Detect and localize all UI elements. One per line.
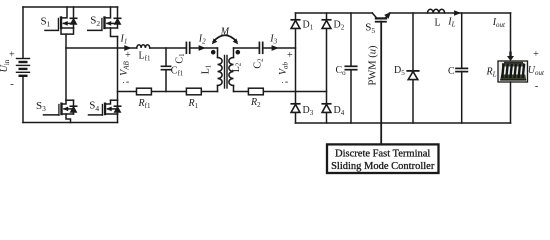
label Cf1	[171, 66, 184, 78]
svg-text:Vab: Vab	[278, 61, 290, 75]
wire: rectifier top rail	[296, 12, 373, 14]
label Uin	[0, 50, 15, 91]
svg-text:C: C	[448, 66, 455, 77]
label S5	[365, 22, 375, 35]
svg-text:Cf1: Cf1	[171, 66, 184, 78]
polarity dot primary	[211, 50, 216, 55]
wire: primary bottom (node B to L1)	[118, 91, 218, 93]
wire: left leg node A	[65, 34, 67, 100]
svg-text:Iout: Iout	[492, 17, 506, 29]
inductor L	[428, 9, 445, 13]
wire: Co branch	[350, 13, 352, 123]
inductor Lf1	[137, 45, 150, 48]
transistor S1	[45, 7, 77, 34]
svg-text:Lf1: Lf1	[139, 51, 151, 63]
svg-text:VAB: VAB	[119, 60, 131, 75]
label Lf1	[139, 51, 151, 63]
label D2	[334, 20, 345, 32]
label controller text	[331, 148, 435, 172]
current arrow Iout	[507, 52, 514, 62]
svg-text:D5: D5	[394, 65, 405, 77]
svg-text:S3: S3	[36, 100, 46, 113]
load RL picture	[498, 61, 528, 82]
svg-text:-: -	[126, 77, 129, 88]
current arrow I2	[199, 45, 206, 51]
label Rf1	[138, 98, 151, 110]
svg-text:D1: D1	[303, 20, 314, 32]
label D3	[303, 105, 314, 117]
transistor S5	[372, 12, 391, 22]
current arrow IL	[454, 10, 461, 15]
capacitor C2	[259, 42, 262, 53]
svg-text:S2: S2	[90, 15, 100, 28]
svg-text:D4: D4	[334, 105, 345, 117]
wire: input bridge bottom rail	[23, 122, 118, 124]
svg-text:C1: C1	[175, 53, 187, 64]
transistor S2	[88, 7, 121, 37]
resistor R2	[248, 88, 263, 95]
svg-text:.: .	[123, 76, 125, 85]
diode D3	[291, 104, 300, 113]
wire: right leg node B	[117, 37, 119, 101]
diode D2	[322, 20, 331, 29]
label Uout	[528, 49, 545, 92]
label L1	[201, 64, 213, 74]
svg-text:L: L	[435, 18, 441, 29]
svg-text:D2: D2	[334, 20, 345, 32]
mutual coupling arrow M	[212, 35, 238, 44]
label S3	[36, 100, 46, 113]
wire: rectifier right leg	[326, 13, 328, 123]
svg-text:Sliding Mode Controller: Sliding Mode Controller	[331, 161, 435, 172]
diode D4	[322, 104, 331, 113]
label D4	[334, 105, 345, 117]
polarity dot secondary	[236, 50, 241, 55]
svg-text:I1: I1	[120, 34, 128, 46]
battery Uin	[17, 59, 30, 76]
svg-text:-: -	[10, 78, 14, 90]
label RL	[486, 67, 497, 79]
capacitor C1	[186, 42, 189, 53]
svg-text:+: +	[9, 50, 15, 61]
wire: input bridge top rail	[23, 6, 118, 8]
svg-text:S1: S1	[41, 15, 51, 28]
label C2	[253, 58, 265, 69]
label D1	[303, 20, 314, 32]
capacitor C	[456, 68, 467, 71]
wire: output right drop	[510, 13, 512, 52]
svg-text:.: .	[282, 76, 284, 85]
wire: Cf1 branch vertical	[165, 48, 167, 92]
diode D5	[407, 71, 418, 80]
svg-text:S5: S5	[365, 22, 375, 35]
wire: rectifier left leg	[295, 13, 297, 123]
svg-text:Rf1: Rf1	[138, 98, 151, 110]
wire A from C1 to transformer	[190, 47, 218, 49]
current arrow I3	[272, 45, 279, 51]
svg-text:RL: RL	[486, 67, 497, 79]
transformer core	[225, 56, 228, 89]
svg-text:Uin: Uin	[0, 59, 11, 72]
wire A horizontal	[66, 47, 137, 49]
wire: load bottom lead	[510, 82, 512, 123]
diode D1	[291, 20, 300, 29]
resistor R1	[186, 88, 201, 95]
label C	[448, 66, 455, 77]
svg-text:Uout: Uout	[528, 65, 545, 77]
label L2	[231, 62, 243, 72]
svg-text:R1: R1	[188, 98, 199, 110]
wire: D5 branch	[412, 13, 414, 123]
label I3	[269, 34, 277, 46]
wire: battery top lead	[22, 7, 24, 58]
label M	[220, 27, 230, 38]
label S2	[90, 15, 100, 28]
controller box	[327, 144, 439, 173]
label Co	[336, 65, 347, 77]
label S4	[89, 100, 99, 113]
svg-text:+: +	[533, 49, 539, 60]
label S1	[41, 15, 51, 28]
transistor S4	[89, 100, 121, 122]
wire: C branch	[461, 13, 463, 123]
svg-text:-: -	[535, 81, 538, 92]
label D5	[394, 65, 405, 77]
label IL	[447, 17, 455, 29]
label Vab	[278, 50, 293, 88]
svg-text:I2: I2	[198, 34, 206, 46]
svg-text:L2: L2	[231, 62, 243, 72]
svg-text:-: -	[285, 77, 288, 88]
wire: secondary top (L2 to rectifier)	[234, 47, 296, 49]
svg-text:S4: S4	[89, 100, 99, 113]
wire: gate line from S5 to controller	[380, 22, 382, 145]
wire: rectifier bottom rail	[296, 122, 511, 124]
svg-text:M: M	[220, 27, 230, 38]
capacitor Cf1	[161, 66, 170, 69]
svg-text:IL: IL	[447, 17, 455, 29]
capacitor Co	[345, 66, 356, 69]
transistor S3	[44, 100, 77, 122]
wire: rectifier top rail right of S5	[390, 12, 511, 14]
label R2	[250, 97, 261, 109]
svg-text:+: +	[287, 50, 293, 61]
svg-text:Discrete Fast Terminal: Discrete Fast Terminal	[335, 148, 430, 159]
label C1	[175, 53, 187, 64]
label I2	[198, 34, 206, 46]
svg-text:L1: L1	[201, 64, 213, 74]
svg-text:PWM (u): PWM (u)	[368, 45, 379, 85]
label PWM (u)	[368, 45, 379, 85]
current arrow I1	[124, 45, 131, 51]
wire: secondary bottom (L2 to rectifier right leg)	[234, 91, 327, 93]
svg-text:I3: I3	[269, 34, 277, 46]
label Iout	[492, 17, 506, 29]
wire: battery bottom lead	[22, 77, 24, 123]
label I1	[120, 34, 128, 46]
svg-text:+: +	[125, 50, 131, 61]
svg-text:C2: C2	[253, 58, 265, 69]
transformer secondary L2	[229, 48, 234, 92]
transformer primary L1	[218, 48, 223, 92]
resistor Rf1	[137, 88, 152, 95]
wire A from Lf1 to C1	[150, 47, 187, 49]
label R1	[188, 98, 199, 110]
svg-text:R2: R2	[250, 97, 261, 109]
svg-text:D3: D3	[303, 105, 314, 117]
label L	[435, 18, 441, 29]
label VAB	[119, 50, 131, 88]
